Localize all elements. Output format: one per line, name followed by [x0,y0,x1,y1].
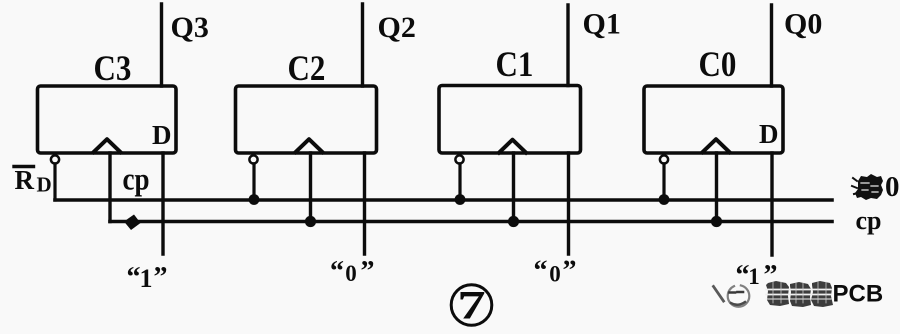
wire clock stub C3 [108,153,111,222]
clock triangle (C3 pin) [94,139,121,152]
flip-flop U3 (C1 box) [439,86,581,154]
label 清0 (clear) [852,171,900,203]
wire reset stub C2 [252,164,255,200]
wire D input C1 [567,153,570,254]
svg-text:cp: cp [856,206,882,235]
wire Q1 output [566,5,569,86]
wire reset stub C3 [53,164,56,200]
wire clock stub C0 [715,153,718,222]
wire D input C0 [770,153,773,255]
label "0" constant at D of C1 [534,256,577,287]
wire Q2 output [361,4,364,86]
wire reset stub C0 [662,164,665,200]
junction dot C1 reset [455,194,466,205]
reset bubble (C2 pin) [249,155,257,163]
svg-text:0: 0 [549,262,561,287]
svg-text:C3: C3 [94,49,132,88]
arrowhead on cp line [124,215,141,231]
svg-text:C0: C0 [699,45,737,84]
label Q0 [784,8,822,41]
junction dot C2 reset [249,194,260,205]
svg-text:Q1: Q1 [583,8,621,41]
label C3 [94,49,132,88]
label D (pin of C3) [152,120,172,150]
wire reset stub C1 [458,164,461,200]
figure number 7 [451,283,492,328]
label C1 [496,45,534,84]
svg-text:”: ” [361,256,375,287]
clock triangle (C1 pin) [499,140,526,153]
svg-text:D: D [759,119,779,149]
svg-text:1: 1 [748,264,760,289]
svg-text:0: 0 [345,261,357,286]
label "0" constant at D of C2 [330,256,375,287]
junction dot C2 clock [305,216,316,227]
svg-text:“: “ [330,256,344,287]
svg-text:D: D [37,173,52,197]
label C2 [288,49,326,88]
wire Q3 output [160,4,163,86]
label C0 [699,45,737,84]
clock triangle (C0 pin) [703,139,730,152]
svg-text:”: ” [563,256,577,287]
svg-text:7: 7 [457,283,485,328]
svg-text:C1: C1 [496,45,534,84]
watermark logo [714,285,750,307]
junction dot C0 clock [711,216,722,227]
wire D input C3 [161,153,164,254]
label D (pin of C0) [759,119,779,149]
svg-text:”: ” [154,262,168,293]
svg-text:Q0: Q0 [784,8,822,41]
label cp (clock input of C3) [123,163,150,198]
wire clock stub C1 [512,153,515,222]
flip-flop U4 (C0 box) [644,86,783,153]
reset bubble (C0 pin) [660,155,668,163]
wire clock stub C2 [309,153,312,222]
label Q1 [583,8,621,41]
svg-text:“: “ [534,256,548,287]
reset bubble (C1 pin) [455,155,463,163]
svg-text:1: 1 [140,264,153,293]
svg-text:cp: cp [123,163,150,198]
wire D input C2 [363,153,366,254]
junction dot C1 clock [508,216,519,227]
svg-text:0: 0 [885,171,900,203]
label Q2 [378,11,416,44]
label "1" constant at D of C0 [736,260,778,291]
svg-text:Q2: Q2 [378,11,416,44]
reset bubble (C3 pin) [51,155,59,163]
junction dot C0 reset [659,194,670,205]
net cp clock line [110,220,832,224]
wire Q0 output [770,5,773,86]
clock triangle (C2 pin) [296,139,323,152]
label "1" constant at D of C3 [127,262,168,293]
svg-text:PCB: PCB [833,281,884,308]
watermark text 穆琴说PCB [766,281,833,307]
svg-text:C2: C2 [288,49,326,88]
label Q3 [171,11,209,44]
svg-text:“: “ [127,262,141,293]
flip-flop U1 (C3 box) [38,86,177,153]
net clear line (R̄D / 清0) [55,198,832,202]
label R̄D (active-low reset) [14,165,52,197]
svg-text:D: D [152,120,172,150]
svg-text:Q3: Q3 [171,11,209,44]
flip-flop U2 (C2 box) [236,86,377,153]
label cp (right end of clock line) [856,206,882,235]
svg-text:R: R [15,165,35,195]
